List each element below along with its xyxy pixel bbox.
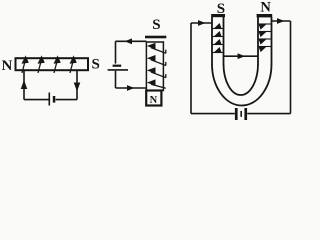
svg-text:N: N [150, 95, 158, 106]
svg-text:S: S [92, 57, 100, 73]
svg-text:N: N [260, 0, 271, 15]
svg-text:S: S [217, 1, 225, 17]
svg-text:S: S [152, 17, 160, 33]
svg-text:N: N [2, 58, 13, 74]
